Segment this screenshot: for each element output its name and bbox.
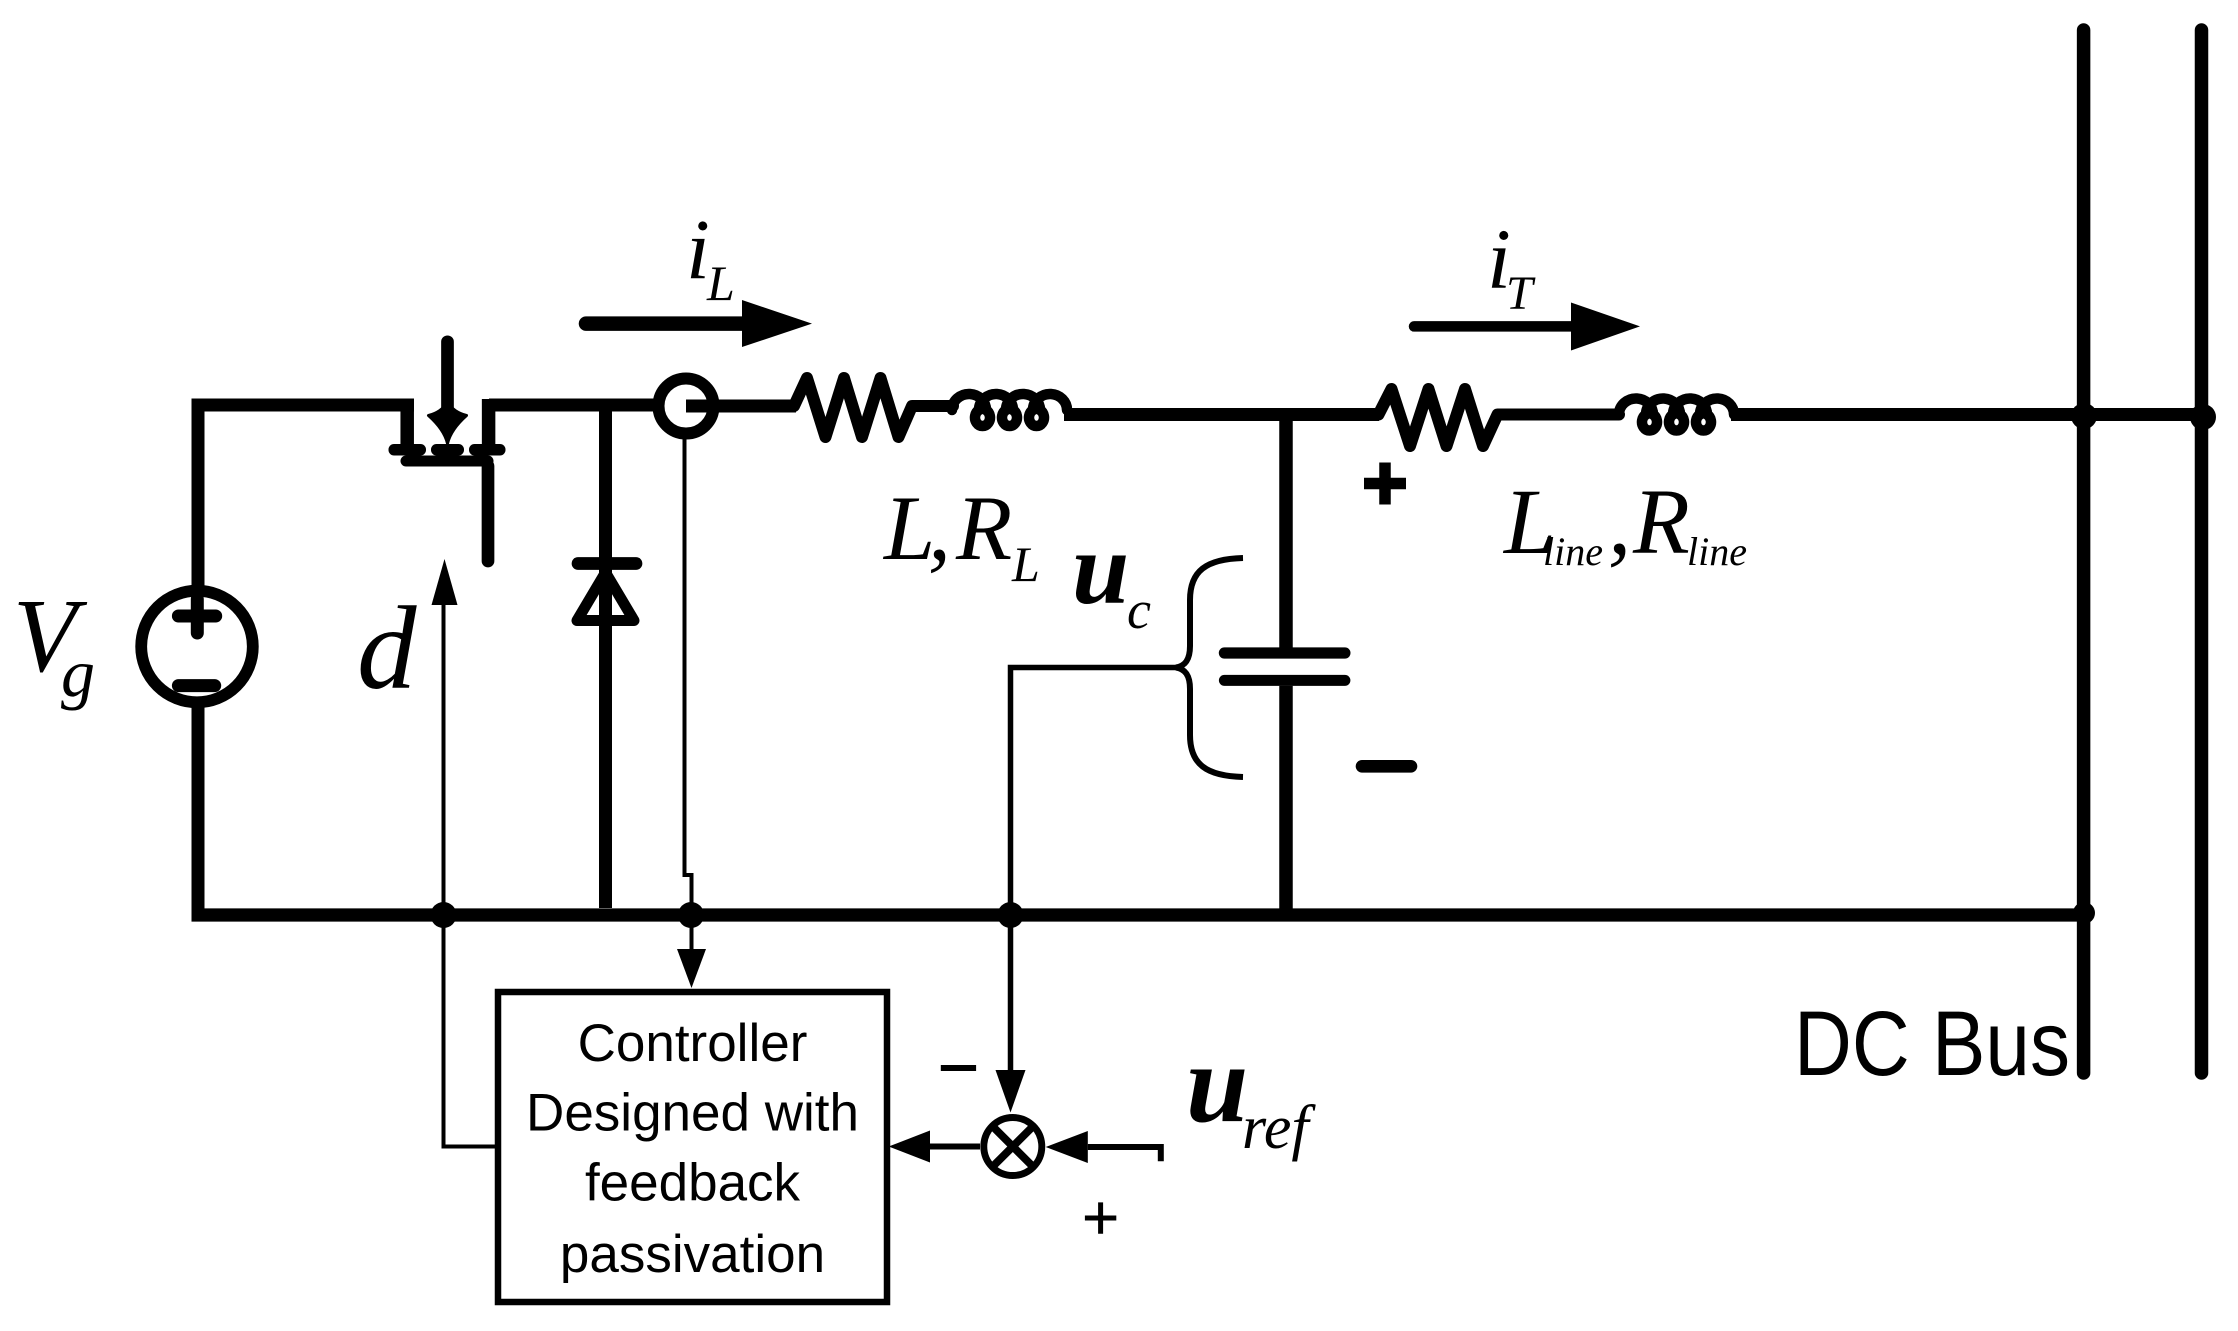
plus sign (line side) [1364, 463, 1406, 505]
label i_L [686, 202, 735, 312]
wire: Vg bottom to rail [192, 705, 205, 915]
junction dot: iL line on rail [678, 902, 704, 928]
capacitor C plates [1224, 653, 1345, 680]
arrow: summing junction to controller [889, 1131, 980, 1163]
wire: switch source to sensor [489, 399, 654, 412]
brace for u_c [1176, 558, 1243, 777]
DC bus bar 2 [2195, 30, 2209, 1073]
label L,R_L [882, 477, 1040, 592]
svg-text:u: u [1072, 512, 1129, 626]
svg-text:Controller: Controller [578, 1014, 808, 1073]
plus sign at summing junction [1085, 1202, 1116, 1233]
controller text [526, 1014, 859, 1284]
minus sign at summing junction [941, 1065, 976, 1071]
svg-text:Designed with: Designed with [526, 1084, 859, 1143]
svg-text:,: , [928, 477, 951, 579]
junction dot: d line on rail [431, 902, 457, 928]
svg-text:line: line [1543, 529, 1603, 574]
svg-text:g: g [61, 635, 95, 711]
wire: inductor L to capacitor node and R_line [1064, 408, 1379, 421]
svg-text:c: c [1127, 580, 1151, 640]
arrowhead into summing junction [996, 1070, 1026, 1113]
junction dot: uc line on rail [998, 902, 1024, 928]
capacitor C branch top [1279, 415, 1293, 649]
wire: sensor to resistor [686, 400, 796, 413]
arrow i_T [1414, 303, 1640, 351]
voltage source Vg [141, 591, 253, 703]
bottom rail (ground return) [192, 908, 2085, 921]
label i_T [1487, 211, 1536, 320]
resistor R_L [794, 378, 953, 437]
svg-text:,: , [1608, 471, 1631, 574]
junction dot: top wire end at bus 2 [2190, 404, 2216, 430]
label u_c [1072, 512, 1151, 640]
svg-text:feedback: feedback [585, 1154, 801, 1213]
minus sign (capacitor) [1362, 760, 1411, 773]
wire: Vg top to switch [198, 405, 414, 586]
summing junction [984, 1118, 1042, 1176]
signal line uc sense: brace to summing junction [1011, 668, 1178, 1071]
arrow i_L [586, 300, 812, 347]
resistor R_line [1379, 389, 1620, 446]
svg-text:u: u [1186, 1022, 1248, 1146]
capacitor C branch bottom [1279, 686, 1293, 915]
svg-text:R: R [955, 477, 1012, 579]
svg-text:L: L [1011, 536, 1040, 592]
svg-text:T: T [1506, 267, 1536, 320]
svg-text:L: L [706, 255, 735, 311]
transistor Q1 (switch) [389, 342, 506, 561]
signal line iL sense: sensor to controller [677, 437, 706, 988]
svg-text:line: line [1687, 529, 1747, 574]
junction dot: rail end at bus 1 [2073, 902, 2095, 924]
inductor L_line [1619, 398, 1734, 430]
label Vg [13, 577, 95, 711]
label u_ref [1186, 1022, 1316, 1162]
svg-text:d: d [357, 582, 417, 714]
diode D (freewheeling) [577, 406, 636, 908]
svg-text:R: R [1632, 471, 1690, 574]
svg-text:passivation: passivation [560, 1225, 825, 1284]
controller box [498, 992, 887, 1302]
wire: L_line to DC bus [1731, 408, 2204, 421]
DC bus bar 1 [2077, 30, 2091, 1073]
label L_line , R_line [1502, 471, 1747, 574]
signal line d: controller to gate [432, 559, 499, 1147]
svg-text:DC Bus: DC Bus [1794, 993, 2070, 1095]
junction dot: top wire at bus 1 [2071, 403, 2097, 429]
current sensor [659, 379, 714, 434]
arrow: u_ref into summing junction [1046, 1131, 1161, 1163]
svg-text:ref: ref [1242, 1094, 1316, 1162]
inductor L [952, 394, 1067, 426]
